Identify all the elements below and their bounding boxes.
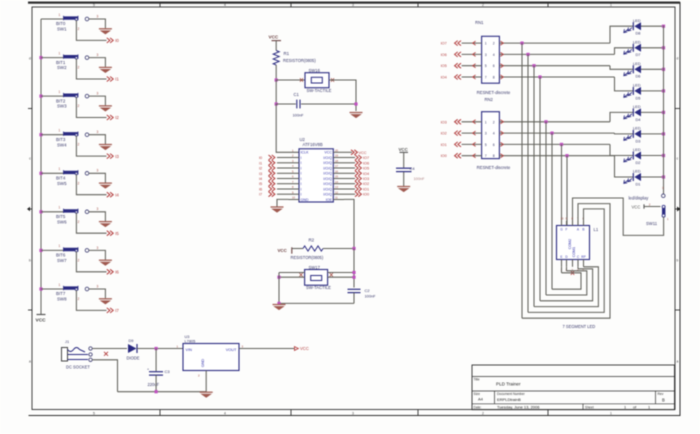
connector J1 DC SOCKET xyxy=(62,339,93,370)
wire C3 to bottom rail xyxy=(155,375,157,392)
svg-text:LED: LED xyxy=(633,104,641,109)
wire jog to LED D3 xyxy=(615,132,634,135)
wire node B to U2 pin1 xyxy=(276,104,299,152)
wire J1 pin3 down xyxy=(92,360,117,392)
LED D7 xyxy=(624,39,641,57)
regulator U3 L7805 xyxy=(177,334,244,377)
wire contact to ground xyxy=(89,135,106,144)
wire RN out row 3 xyxy=(499,64,610,68)
wire RN out row 7 xyxy=(499,142,610,146)
port I5 (U2) xyxy=(259,181,275,186)
svg-text:I6: I6 xyxy=(115,270,119,275)
wire port I3 to U2 xyxy=(277,172,289,174)
wire RN out row 5 xyxy=(499,120,610,124)
LED D8 xyxy=(624,18,641,36)
wire LED D5 cathode xyxy=(641,90,664,92)
svg-text:BIT6: BIT6 xyxy=(56,253,66,258)
svg-text:I1: I1 xyxy=(115,77,119,82)
wire contact to ground xyxy=(89,19,106,28)
junction (drop) xyxy=(550,132,553,135)
svg-text:d: d xyxy=(29,56,31,60)
wire 7-seg net 5 xyxy=(546,271,587,295)
junction (LED common) xyxy=(662,89,665,92)
svg-text:IO0: IO0 xyxy=(441,154,447,158)
wire VCC to R2 xyxy=(292,248,303,250)
svg-text:I: I xyxy=(301,156,302,160)
junction (bus, SW7) xyxy=(39,249,42,252)
switch SW6 BIT5 xyxy=(56,206,80,225)
svg-text:3: 3 xyxy=(485,53,487,57)
svg-text:SW17: SW17 xyxy=(309,265,321,270)
svg-text:F: F xyxy=(566,228,568,232)
title block xyxy=(472,365,675,410)
svg-text:VCC: VCC xyxy=(632,204,641,209)
wire U2 GND pin xyxy=(277,199,289,206)
wire jog to LED D7 xyxy=(615,48,634,55)
wire 7-seg net 3 xyxy=(534,267,598,307)
svg-text:1: 1 xyxy=(485,120,487,124)
pin 3 contact of SW4 xyxy=(85,130,98,136)
resistor R1 RESISTOR(0805) xyxy=(273,51,316,66)
switch SW1 BIT0 xyxy=(56,13,80,32)
svg-text:6: 6 xyxy=(493,64,495,68)
wire contact to ground xyxy=(89,250,106,259)
svg-text:BIT5: BIT5 xyxy=(56,214,66,219)
wire VCC to R1 xyxy=(275,41,277,51)
junction (drop) xyxy=(532,64,535,67)
svg-text:3: 3 xyxy=(97,14,99,18)
svg-text:220uF: 220uF xyxy=(148,382,160,387)
wire port I6 to U2 xyxy=(277,188,289,190)
svg-text:5: 5 xyxy=(93,3,95,7)
svg-text:3: 3 xyxy=(352,412,354,416)
junction (drop) xyxy=(538,75,541,78)
svg-text:100nF: 100nF xyxy=(293,113,305,118)
junction (LED common) xyxy=(662,175,665,178)
svg-text:2: 2 xyxy=(78,143,80,147)
resistor R2 RESISTOR(0805) xyxy=(291,238,324,260)
net VCC bus xyxy=(40,19,42,314)
svg-text:IO7: IO7 xyxy=(441,42,447,46)
wire port I1 to U2 xyxy=(277,162,289,164)
svg-text:C3: C3 xyxy=(165,369,171,374)
svg-text:D9: D9 xyxy=(129,338,134,343)
svg-text:I6: I6 xyxy=(259,188,262,192)
wire D9 to U3 xyxy=(137,348,183,350)
svg-text:6: 6 xyxy=(493,143,495,147)
svg-text:c: c xyxy=(677,156,679,160)
svg-text:I0: I0 xyxy=(259,156,262,160)
svg-text:IO6: IO6 xyxy=(441,53,447,57)
svg-text:1: 1 xyxy=(485,42,487,46)
junction (drop) xyxy=(526,53,529,56)
junction (bus, SW5) xyxy=(39,172,42,175)
port I7 (U2) xyxy=(259,192,275,197)
svg-text:L1: L1 xyxy=(594,227,599,232)
svg-text:I7: I7 xyxy=(259,193,262,197)
wire jog to LED D5 xyxy=(615,77,634,91)
svg-text:BIT3: BIT3 xyxy=(56,137,66,142)
wire bus to SW8 xyxy=(41,288,64,290)
wire jog to LED D4 xyxy=(610,112,633,121)
svg-text:B: B xyxy=(582,228,584,232)
svg-text:I0: I0 xyxy=(115,38,119,43)
svg-text:SW1: SW1 xyxy=(57,27,67,32)
svg-text:I3: I3 xyxy=(115,154,119,159)
svg-text:I5: I5 xyxy=(259,182,262,186)
svg-text:D6: D6 xyxy=(636,74,641,79)
power symbol VCC (R2) xyxy=(278,247,292,253)
pin 3 contact of SW3 xyxy=(85,92,98,98)
port I6 (U2) xyxy=(259,187,275,192)
junction (bus, SW2) xyxy=(39,56,42,59)
svg-text:3: 3 xyxy=(97,207,99,211)
svg-text:RESISTOR(0805): RESISTOR(0805) xyxy=(291,255,324,260)
diode D9 DIODE xyxy=(127,338,140,360)
svg-text:I/O/Q: I/O/Q xyxy=(323,166,332,170)
svg-text:SW-TACTILE: SW-TACTILE xyxy=(306,285,331,290)
junction (SW17 right) xyxy=(352,271,355,274)
switch SW8 BIT7 xyxy=(56,283,80,302)
svg-text:a: a xyxy=(29,359,31,363)
svg-text:VIN: VIN xyxy=(186,347,193,352)
wire R2 to node A xyxy=(323,248,354,250)
junction (C1 right) xyxy=(354,102,357,105)
svg-text:3: 3 xyxy=(97,92,99,96)
power port VCC (PSU) xyxy=(295,346,309,351)
svg-text:I/O/Q: I/O/Q xyxy=(323,161,332,165)
wire 7-seg net 1 xyxy=(522,204,610,319)
svg-text:D7: D7 xyxy=(636,52,641,57)
svg-text:2: 2 xyxy=(78,181,80,185)
svg-text:VCC: VCC xyxy=(399,147,409,152)
svg-text:BIT2: BIT2 xyxy=(56,98,66,103)
junction (LED common) xyxy=(662,154,665,157)
svg-text:D4: D4 xyxy=(636,117,642,122)
junction (bottom rail) xyxy=(277,302,280,305)
svg-text:1: 1 xyxy=(59,90,61,94)
svg-text:R1: R1 xyxy=(284,51,290,56)
LED D1 xyxy=(624,169,641,187)
svg-text:Rev: Rev xyxy=(658,392,664,396)
svg-text:1: 1 xyxy=(59,129,61,133)
svg-text:1: 1 xyxy=(59,244,61,248)
svg-text:7 SEGMENT LED: 7 SEGMENT LED xyxy=(563,324,596,329)
pin 3 contact of SW5 xyxy=(85,169,98,175)
svg-text:LED: LED xyxy=(633,61,641,66)
wire contact to ground xyxy=(89,212,106,221)
junction (drop) xyxy=(560,143,563,146)
wire SW7 pin2 to port I6 xyxy=(76,251,106,271)
port I4 xyxy=(107,192,120,197)
svg-text:J1: J1 xyxy=(65,339,69,344)
svg-text:1: 1 xyxy=(610,3,612,7)
ground (SW2) xyxy=(99,67,112,72)
junction (LED common) xyxy=(662,25,665,28)
junction (drop) xyxy=(544,120,547,123)
ground (SW7) xyxy=(99,260,112,265)
svg-text:2: 2 xyxy=(78,297,80,301)
svg-text:I3: I3 xyxy=(259,172,262,176)
wire LED D7 cathode xyxy=(641,47,664,49)
port IO1 (U2) xyxy=(344,187,369,192)
svg-text:3: 3 xyxy=(97,284,99,288)
svg-text:IO3: IO3 xyxy=(363,177,369,181)
resistor network RN1 RESNET-discrete xyxy=(475,20,511,95)
svg-text:BIT0: BIT0 xyxy=(56,21,66,26)
wire SW6 pin2 to port I5 xyxy=(76,213,106,233)
wire jog to LED D1 xyxy=(615,156,634,177)
wire bus to SW3 xyxy=(41,95,64,97)
svg-text:RP: RP xyxy=(581,255,585,259)
svg-text:2: 2 xyxy=(493,120,495,124)
svg-text:1: 1 xyxy=(59,206,61,210)
svg-text:I/O/Q: I/O/Q xyxy=(323,182,332,186)
svg-text:SW7: SW7 xyxy=(57,258,67,263)
svg-text:IO3: IO3 xyxy=(441,120,447,124)
svg-text:2: 2 xyxy=(78,258,80,262)
svg-text:2: 2 xyxy=(78,66,80,70)
svg-text:1: 1 xyxy=(648,406,650,410)
wire SW11 to 7-seg COM xyxy=(573,198,664,235)
port IO0 (RN) xyxy=(441,153,482,158)
wire bus to SW7 xyxy=(41,249,64,251)
7-segment display L1 xyxy=(557,217,599,272)
svg-text:IO7: IO7 xyxy=(363,156,369,160)
svg-text:VCC: VCC xyxy=(278,248,288,253)
junction (bus, SW8) xyxy=(39,287,42,290)
svg-text:VCC: VCC xyxy=(36,318,47,324)
wire SW17 right pins xyxy=(328,272,354,274)
capacitor C4 100nF xyxy=(396,152,425,186)
svg-text:7: 7 xyxy=(485,76,487,80)
wire 7-seg net 2 xyxy=(528,209,604,313)
wire bus to SW1 xyxy=(41,18,64,20)
svg-text:C4: C4 xyxy=(410,166,416,171)
svg-text:I/O/Q: I/O/Q xyxy=(323,177,332,181)
svg-text:RN1: RN1 xyxy=(475,20,484,25)
svg-text:B: B xyxy=(662,397,665,402)
svg-text:SW5: SW5 xyxy=(57,181,67,186)
svg-text:Sheet: Sheet xyxy=(585,405,594,409)
svg-text:20: 20 xyxy=(335,149,338,153)
LED D3 xyxy=(624,126,641,144)
pin 3 contact of SW8 xyxy=(85,284,98,290)
switch SW16 SW-TACTILE xyxy=(300,68,334,93)
svg-text:D2: D2 xyxy=(636,160,641,165)
junction (C1 left) xyxy=(275,102,278,105)
ground (SW8) xyxy=(99,299,112,304)
svg-text:C2: C2 xyxy=(365,288,371,293)
port IO4 (RN) xyxy=(441,75,482,80)
svg-text:I: I xyxy=(301,182,302,186)
port I0 (U2) xyxy=(259,155,275,160)
wire node A down xyxy=(353,249,355,288)
svg-text:3: 3 xyxy=(352,3,354,7)
svg-text:IO2: IO2 xyxy=(363,182,369,186)
wire PSU bottom rail xyxy=(118,391,207,393)
port I3 xyxy=(107,154,120,159)
wire port I4 to U2 xyxy=(277,178,289,180)
wire drop to 7-seg xyxy=(527,54,529,312)
svg-text:3: 3 xyxy=(97,246,99,250)
switch SW7 BIT6 xyxy=(56,244,80,263)
wire RN out row 6 xyxy=(499,131,614,135)
pin 3 contact of SW2 xyxy=(85,53,98,59)
svg-text:SW11: SW11 xyxy=(646,221,658,226)
resistor network RN2 RESNET-discrete xyxy=(477,97,511,170)
svg-text:100nF: 100nF xyxy=(414,176,426,181)
wire jog to LED D2 xyxy=(610,144,633,155)
wire SW1 pin2 to port I0 xyxy=(76,20,106,40)
port I3 (U2) xyxy=(259,171,275,176)
svg-text:Date:: Date: xyxy=(474,405,482,409)
svg-text:1: 1 xyxy=(59,51,61,55)
ground (SW16/C1) xyxy=(350,113,363,118)
ground (PSU) xyxy=(200,392,213,397)
svg-text:ICLK: ICLK xyxy=(301,151,310,155)
svg-text:Title: Title xyxy=(474,377,480,381)
svg-text:1: 1 xyxy=(59,283,61,287)
svg-text:BIT4: BIT4 xyxy=(56,176,66,181)
port IO3 (RN) xyxy=(441,119,482,124)
power symbol VCC (bus bottom) xyxy=(36,315,47,324)
svg-text:SW4: SW4 xyxy=(57,142,67,147)
svg-text:ERPLDtrainB: ERPLDtrainB xyxy=(497,397,521,402)
wire RN out row 1 xyxy=(499,41,610,45)
svg-text:BIT7: BIT7 xyxy=(56,291,66,296)
svg-text:19: 19 xyxy=(335,154,338,158)
svg-text:BIT1: BIT1 xyxy=(56,60,66,65)
capacitor C2 100nF xyxy=(348,288,377,299)
svg-text:2: 2 xyxy=(78,220,80,224)
svg-text:A4: A4 xyxy=(478,396,484,401)
svg-text:I/O/Q: I/O/Q xyxy=(323,172,332,176)
wire SW5 pin2 to port I4 xyxy=(76,174,106,194)
svg-text:LED: LED xyxy=(633,83,641,88)
pin 3 contact of SW6 xyxy=(85,207,98,213)
svg-text:D1: D1 xyxy=(636,181,641,186)
wire drop to 7-seg xyxy=(533,66,535,307)
wire drop to 7-seg xyxy=(521,43,523,318)
svg-text:+: + xyxy=(147,367,149,371)
svg-text:led/display: led/display xyxy=(629,195,650,200)
wire contact to ground xyxy=(89,289,106,298)
wire node B to SW16 xyxy=(276,79,305,81)
wire VOUT to VCC xyxy=(239,348,294,350)
wire RN out row 2 xyxy=(499,52,614,56)
junction (drop) xyxy=(565,154,568,157)
wire R1 to node B xyxy=(275,65,277,80)
svg-text:E: E xyxy=(560,255,562,259)
svg-text:4: 4 xyxy=(224,412,226,416)
wire contact to ground xyxy=(89,96,106,105)
svg-text:I2: I2 xyxy=(259,167,262,171)
svg-text:I7: I7 xyxy=(115,308,119,313)
svg-text:IO5: IO5 xyxy=(441,64,447,68)
svg-text:I4: I4 xyxy=(259,177,262,181)
ground (SW17/C2) xyxy=(273,305,286,310)
svg-text:IO4: IO4 xyxy=(441,76,447,80)
power symbol VCC (R1) xyxy=(269,35,282,41)
svg-text:2: 2 xyxy=(482,3,484,7)
svg-text:I/O/Q: I/O/Q xyxy=(323,187,332,191)
wire LED D4 cathode xyxy=(641,111,664,113)
svg-text:1: 1 xyxy=(624,406,626,410)
svg-text:8: 8 xyxy=(493,76,495,80)
junction (C3 top) xyxy=(155,347,158,350)
wire LED D6 cathode xyxy=(641,68,664,70)
svg-text:VCC: VCC xyxy=(324,151,332,155)
svg-text:LED: LED xyxy=(633,18,641,23)
no-connect X (COM1) xyxy=(571,271,574,275)
switch SW2 BIT1 xyxy=(56,51,80,70)
port I1 (U2) xyxy=(259,160,275,165)
svg-text:I: I xyxy=(301,187,302,191)
svg-text:SW2: SW2 xyxy=(57,65,67,70)
svg-text:LED: LED xyxy=(633,147,641,152)
svg-text:2: 2 xyxy=(78,104,80,108)
port IO6 (RN) xyxy=(441,52,482,57)
port I2 (U2) xyxy=(259,166,275,171)
svg-text:1: 1 xyxy=(610,412,612,416)
ground (SW5) xyxy=(99,183,112,188)
svg-text:R2: R2 xyxy=(309,238,315,243)
svg-text:13: 13 xyxy=(335,185,338,189)
svg-text:14: 14 xyxy=(335,180,338,184)
svg-text:ATF16V8B: ATF16V8B xyxy=(303,142,323,147)
power symbol VCC (SW11) xyxy=(632,203,661,210)
svg-text:RESISTOR(0805): RESISTOR(0805) xyxy=(283,58,316,63)
svg-text:a: a xyxy=(676,359,678,363)
junction (LED common) xyxy=(662,68,665,71)
svg-text:I/O/Q: I/O/Q xyxy=(323,156,332,160)
svg-text:4: 4 xyxy=(224,3,226,7)
ground (SW3) xyxy=(99,106,112,111)
wire SW17 left pins xyxy=(279,272,305,274)
svg-text:I1: I1 xyxy=(259,161,262,165)
svg-text:d: d xyxy=(676,56,678,60)
wire node B down to C1 xyxy=(275,80,277,104)
svg-text:I: I xyxy=(301,193,302,197)
junction (drop) xyxy=(520,42,523,45)
ground (C4) xyxy=(397,187,410,192)
svg-text:Document Number: Document Number xyxy=(497,392,526,396)
svg-text:5: 5 xyxy=(485,143,487,147)
wire RN out row 8 xyxy=(499,154,614,158)
junction (bus, SW6) xyxy=(39,210,42,213)
wire LED D3 cathode xyxy=(641,133,664,135)
svg-text:Tuesday, June 13, 2006: Tuesday, June 13, 2006 xyxy=(497,405,540,410)
junction node B xyxy=(275,78,278,81)
ground (SW6) xyxy=(99,222,112,227)
svg-text:LED: LED xyxy=(633,169,641,174)
port I1 xyxy=(107,77,120,82)
svg-text:SW16: SW16 xyxy=(309,68,321,73)
port I4 (U2) xyxy=(259,176,275,181)
svg-text:I4: I4 xyxy=(115,192,119,197)
svg-text:I: I xyxy=(301,177,302,181)
svg-text:Size: Size xyxy=(474,392,481,396)
svg-text:SW3: SW3 xyxy=(57,104,67,109)
wire LED common line xyxy=(663,26,665,195)
wire SW3 pin2 to port I2 xyxy=(76,97,106,117)
svg-text:VOUT: VOUT xyxy=(226,347,237,352)
svg-text:12: 12 xyxy=(335,190,338,194)
svg-text:I/O/Q: I/O/Q xyxy=(323,193,332,197)
pin 3 contact of SW7 xyxy=(85,246,98,252)
power port VCC (U2 pin20) xyxy=(344,150,367,155)
